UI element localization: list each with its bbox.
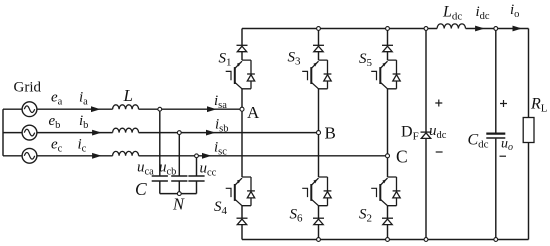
- series diode of S1: [237, 45, 248, 51]
- junction tap phase b: [177, 131, 181, 135]
- wire: bottom dc rail: [242, 239, 529, 241]
- wire: top dc rail left of Ldc: [242, 28, 437, 30]
- wire: source star bus (left vertical): [2, 109, 4, 156]
- wire: phase a from inductor to node A: [139, 108, 242, 110]
- ac source e_c: [22, 148, 37, 163]
- wire: phase b from source to inductor: [37, 132, 113, 134]
- freewheeling diode DF: [421, 132, 432, 138]
- inductor L phase b: [113, 128, 139, 132]
- label plus u_dc: [435, 100, 442, 107]
- ac source e_b: [22, 125, 37, 140]
- svg-text:B: B: [325, 124, 336, 143]
- junction node bottom Cdc: [494, 238, 498, 242]
- junction node top DF: [424, 27, 428, 31]
- arrow i_sb: [206, 130, 216, 136]
- junction node top Cdc: [494, 27, 498, 31]
- svg-text:C: C: [135, 179, 147, 199]
- wire: stub to source a: [3, 108, 22, 110]
- arrow i_a: [91, 106, 101, 112]
- node C: [386, 154, 390, 158]
- series diode of S5: [382, 45, 393, 51]
- svg-text:N: N: [172, 195, 185, 214]
- IGBT switch S1: [226, 60, 255, 89]
- wire: capacitor neutral bus: [160, 193, 197, 195]
- wire: capacitor branch b: [178, 133, 180, 194]
- ac source e_a: [22, 102, 37, 117]
- inductor L phase c: [113, 151, 139, 155]
- label minus u_dc: [436, 151, 443, 153]
- IGBT switch S4: [226, 177, 255, 206]
- wire: leg 2 vertical segments: [318, 29, 320, 240]
- wire: stub to source b: [3, 132, 22, 134]
- arrow i_dc: [475, 26, 485, 32]
- junction tap phase a: [158, 107, 162, 111]
- node B: [317, 131, 321, 135]
- series diode of S6: [313, 218, 324, 224]
- wire: right load rail: [528, 29, 530, 240]
- series diode of S3: [313, 45, 324, 51]
- series diode of S4: [237, 218, 248, 224]
- junction node bottom DF: [424, 238, 428, 242]
- junction node top leg2: [317, 27, 321, 31]
- wire: phase c from source to inductor: [37, 155, 113, 157]
- junction node bottom leg2: [317, 238, 321, 242]
- wire: phase b from inductor to node B: [139, 132, 319, 134]
- series diode of S2: [382, 218, 393, 224]
- wire: capacitor branch a: [159, 109, 161, 193]
- wire: top dc rail right of Ldc: [466, 28, 529, 30]
- arrow i_sa: [207, 106, 217, 112]
- arrow i_o: [513, 26, 523, 32]
- wire: Cdc branch: [495, 29, 497, 240]
- IGBT switch S5: [371, 60, 400, 89]
- wire: phase c from inductor to node C: [139, 155, 388, 157]
- arrow i_c: [92, 153, 102, 159]
- svg-text:C: C: [396, 147, 408, 167]
- IGBT switch S2: [371, 177, 400, 206]
- wire: phase a from source to inductor: [37, 108, 113, 110]
- arrow i_b: [92, 130, 102, 136]
- label minus Cdc: [500, 155, 507, 157]
- capacitor Cdc plates: [486, 134, 505, 138]
- wire: capacitor branch c: [196, 156, 198, 194]
- label plus Cdc: [500, 100, 507, 107]
- capacitor u_cb plates: [171, 176, 187, 181]
- svg-text:Grid: Grid: [14, 80, 42, 96]
- inductor L phase a: [113, 105, 139, 109]
- svg-text:A: A: [247, 103, 260, 122]
- node A: [240, 107, 244, 111]
- wire: freewheeling diode branch: [425, 29, 427, 240]
- capacitor u_cc plates: [188, 176, 204, 181]
- node N: [177, 192, 181, 196]
- svg-text:L: L: [123, 86, 133, 105]
- IGBT switch S6: [302, 177, 331, 206]
- arrow i_sc: [202, 153, 212, 159]
- junction node bottom leg3: [386, 238, 390, 242]
- junction tap phase c: [195, 154, 199, 158]
- capacitor u_ca plates: [152, 176, 168, 181]
- wire: leg 1 vertical segments: [241, 29, 243, 240]
- wire: stub to source c: [3, 155, 22, 157]
- resistor RL: [523, 118, 534, 143]
- inductor Ldc: [437, 24, 465, 29]
- IGBT switch S3: [302, 60, 331, 89]
- junction node top leg3: [386, 27, 390, 31]
- wire: leg 3 vertical segments: [387, 29, 389, 240]
